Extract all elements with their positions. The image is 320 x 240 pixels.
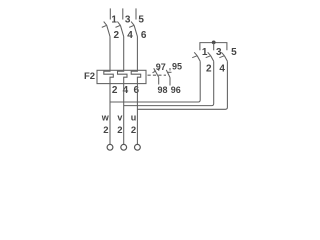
- heater element pole 2: [118, 70, 128, 83]
- overload relay body F2: [97, 70, 146, 83]
- svg-text:4: 4: [127, 30, 133, 41]
- contact blade pole 5-6: [129, 22, 137, 37]
- junction dot: [212, 41, 216, 45]
- svg-text:2: 2: [206, 64, 212, 75]
- wire: U2 drop: [136, 84, 138, 145]
- wire: pole 3 to overload: [123, 37, 125, 71]
- aux contact 97-98 (NO): [153, 68, 159, 85]
- svg-text:2: 2: [131, 125, 136, 136]
- heater element pole 3: [131, 70, 141, 83]
- aux contact 95-96 (NC): [166, 68, 171, 86]
- svg-text:2: 2: [114, 30, 120, 41]
- svg-text:3: 3: [125, 15, 131, 26]
- svg-text:2: 2: [117, 125, 122, 136]
- contact blade pole 3-4: [116, 22, 124, 37]
- svg-text:97: 97: [156, 62, 166, 72]
- svg-text:v: v: [117, 113, 122, 123]
- wire: contactor pole 1 to node W: [110, 61, 200, 102]
- svg-text:u: u: [131, 113, 137, 123]
- svg-text:w: w: [101, 113, 110, 123]
- svg-text:2: 2: [103, 125, 108, 136]
- wire: contactor pole 5 to node U: [137, 61, 227, 109]
- svg-text:6: 6: [134, 85, 140, 96]
- mechanical link (dashed): [148, 74, 167, 76]
- svg-text:96: 96: [171, 85, 181, 95]
- wire: middle stub: [213, 43, 215, 51]
- svg-text:1: 1: [111, 15, 117, 26]
- wire: contactor pole 3 to node V: [124, 61, 214, 105]
- contact blade pole 3-4: [206, 52, 214, 61]
- svg-text:6: 6: [141, 30, 147, 41]
- contact blade pole 1-2: [192, 52, 200, 61]
- svg-text:98: 98: [157, 85, 167, 95]
- svg-text:5: 5: [231, 47, 237, 58]
- terminal circle V2: [121, 144, 127, 150]
- svg-text:1: 1: [202, 47, 208, 58]
- wire: pole 3 top terminal stub: [122, 8, 124, 19]
- svg-text:5: 5: [138, 15, 144, 26]
- wire: pole 1 to overload: [109, 37, 111, 71]
- terminal circle U2: [135, 144, 141, 150]
- star-point busbar: [200, 43, 227, 51]
- wire: V2 drop: [123, 84, 125, 145]
- wire: W2 drop: [109, 84, 111, 145]
- wire: pole 5 to overload: [136, 37, 138, 71]
- contact blade pole 1-2: [102, 22, 110, 37]
- svg-text:4: 4: [219, 64, 225, 75]
- terminal circle W2: [107, 144, 113, 150]
- svg-text:95: 95: [172, 62, 182, 72]
- heater element pole 1: [104, 70, 114, 83]
- wire: pole 5 top terminal stub: [135, 8, 137, 19]
- wire: pole 1 top terminal stub: [109, 8, 111, 19]
- svg-text:3: 3: [216, 47, 222, 58]
- svg-text:F2: F2: [84, 71, 95, 82]
- svg-text:2: 2: [112, 85, 118, 96]
- contact blade pole 5-6: [219, 52, 227, 61]
